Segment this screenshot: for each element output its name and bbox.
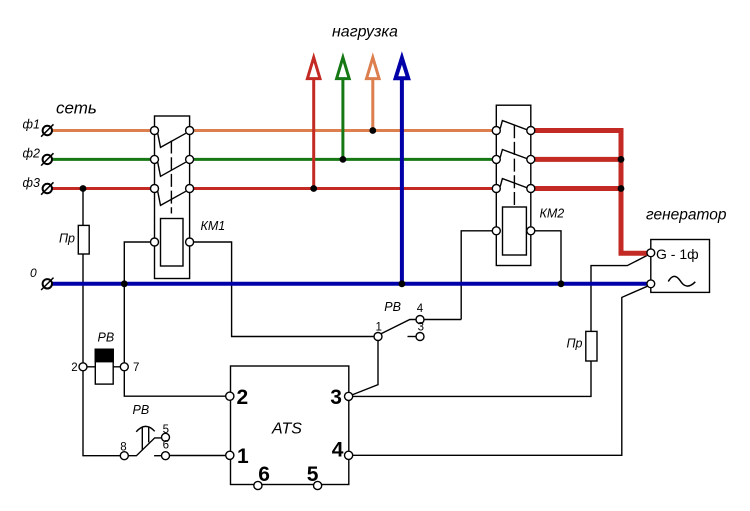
svg-text:ф2: ф2 (23, 147, 40, 161)
pin 8 switch (120, 452, 128, 460)
wire KM1 coil right to РВ(mid) pin1 (194, 242, 374, 337)
wire KM2 coil right to neutral junction (535, 231, 561, 284)
junction dot generator bus row3 (618, 185, 625, 192)
svg-text:4: 4 (417, 303, 424, 315)
ATS box (231, 366, 349, 485)
svg-text:ф1: ф1 (23, 118, 40, 132)
wire: phase ф2 (green) network segment (52, 158, 493, 161)
pin 5 switch (162, 433, 170, 441)
pin 6 ATS (254, 481, 262, 489)
wire KM1 coil left to neutral and РВ pin7 (124, 242, 150, 363)
svg-text:0: 0 (30, 266, 37, 280)
contactor KM1 blade pole1 (158, 133, 186, 147)
svg-text:4: 4 (332, 439, 344, 462)
svg-text:3: 3 (330, 386, 342, 409)
wire ф1 KM1 to KM2 (194, 129, 493, 132)
relay РВ coil (left) (87, 349, 121, 384)
contactor KM2 blade pole2 (500, 150, 528, 160)
wire switch pin6 to ATS pin1 (170, 455, 226, 457)
svg-text:генератор: генератор (646, 207, 727, 224)
junction dot blue arrow on neutral (399, 280, 406, 287)
time switch dashpot arc (136, 426, 155, 431)
contact circles KM1 (151, 127, 194, 247)
pin 3 РВ middle (416, 333, 424, 341)
svg-text:3: 3 (418, 321, 424, 333)
contactor KM2 body (496, 105, 531, 265)
contactor KM2 blade pole3 (500, 179, 528, 189)
generator terminal top (647, 249, 655, 257)
fuse Пр right (586, 331, 597, 361)
svg-text:6: 6 (163, 440, 169, 452)
load arrow blue (neutral tap) (396, 58, 409, 284)
wire ATS pin4 to generator bottom terminal (353, 286, 648, 455)
contactor KM1 blade pole3 (158, 191, 186, 205)
time switch dashpot line2 (148, 427, 150, 442)
pin 6 switch (162, 452, 170, 460)
pin 4 РВ middle (416, 316, 424, 324)
terminal ф2 (41, 153, 53, 165)
wire stub left of РВ pin3 (408, 336, 417, 338)
svg-text:Пр: Пр (567, 336, 583, 350)
svg-text:2: 2 (71, 362, 77, 374)
time switch РВ (lower left) lever (128, 426, 161, 455)
junction dot green arrow on ф2 (340, 156, 347, 163)
svg-text:5: 5 (163, 424, 169, 436)
terminal ф1 (41, 124, 53, 136)
generator sine symbol (668, 276, 695, 286)
contactor KM2 coil (503, 207, 527, 255)
pin 2 ATS (226, 392, 234, 400)
svg-text:Пр: Пр (59, 232, 75, 246)
wire РВ pin7 down to ATS pin2 (124, 371, 225, 396)
wire: generator feed (thick red) from KM2 to generator (535, 131, 647, 254)
generator box (651, 240, 710, 293)
contact circles KM1 coil pins (151, 238, 159, 246)
wire fuse Пр left to РВ pin2 (82, 254, 84, 363)
load arrow green (phase ф2 tap) (337, 58, 350, 160)
contactor KM1 body (155, 116, 190, 279)
pin 1 ATS (226, 451, 234, 459)
svg-text:РВ: РВ (98, 331, 115, 345)
contactor KM1 blade pole2 (158, 162, 186, 176)
svg-text:7: 7 (133, 362, 139, 374)
generator terminal bottom (647, 280, 655, 288)
junction dot KM1 coil on neutral (121, 280, 128, 287)
contactor KM1 coil (161, 219, 184, 267)
contactor KM2 dashed link (513, 125, 515, 205)
relay contact РВ (middle) lever 1-4 (381, 320, 416, 337)
junction dot ф3/fuse (80, 185, 87, 192)
wire РВ pin2 down to switch pin8 (83, 371, 120, 456)
pin 2 РВ left (79, 363, 87, 371)
wire РВ(mid) pin4 to KM2 coil left (424, 319, 461, 321)
wire KM2 row2 to generator bus (535, 157, 624, 162)
wire РВ coil stubs (87, 366, 121, 368)
svg-text:КМ2: КМ2 (540, 207, 565, 221)
wire ATS pin3 to fuse Пр right (353, 361, 591, 396)
wire KM2 coil left down to РВ(mid) pin4 row (461, 231, 492, 320)
wire РВ(mid) pin1 down to ATS pin3 (352, 341, 378, 396)
junction dot orange arrow on ф1 (369, 127, 376, 134)
pin 1 РВ middle (374, 333, 382, 341)
svg-text:РВ: РВ (384, 300, 401, 314)
svg-text:8: 8 (120, 442, 126, 454)
svg-text:2: 2 (237, 386, 249, 409)
svg-text:1: 1 (376, 321, 382, 333)
svg-text:КМ1: КМ1 (201, 219, 226, 233)
svg-text:ф3: ф3 (23, 176, 40, 190)
wire KM2 row3 to generator bus (535, 186, 624, 191)
junction dot red arrow on ф3 (310, 185, 317, 192)
pin 4 ATS (345, 451, 353, 459)
wire: phase ф1 (orange) network segment (52, 129, 493, 132)
wire stub left of pin6 (154, 455, 161, 457)
terminal ф3 (41, 182, 53, 194)
svg-text:6: 6 (258, 463, 270, 486)
svg-text:G - 1ф: G - 1ф (656, 246, 699, 262)
svg-text:1: 1 (237, 445, 249, 468)
load arrow orange (phase ф1 tap) (367, 58, 380, 131)
wire: neutral 0 line (blue) (52, 282, 647, 286)
wire fuse Пр right to generator top terminal (591, 255, 647, 331)
svg-text:ATS: ATS (271, 421, 302, 438)
fuse Пр left (78, 225, 89, 254)
junction dot generator bus row2 (618, 156, 625, 163)
svg-text:сеть: сеть (56, 99, 97, 118)
wire: phase ф3 (red) network segment (52, 187, 493, 190)
wire ф3 to fuse Пр left (82, 189, 84, 226)
contact circles KM2 coil pins (492, 227, 500, 235)
pin 3 ATS (345, 392, 353, 400)
wire ф2 KM1 to KM2 (194, 158, 493, 161)
svg-text:5: 5 (307, 463, 319, 486)
pin 5 ATS (314, 481, 322, 489)
wire: thin black verticals/horizontals (control circuit) (83, 189, 647, 456)
load arrow red (phase ф3 tap) (307, 58, 320, 189)
wire ф3 KM1 to KM2 (194, 187, 493, 190)
terminal 0 (41, 278, 53, 290)
contact circles KM2 (492, 127, 535, 235)
contactor KM2 blade pole1 (500, 121, 528, 131)
time switch dashpot line1 (141, 427, 143, 450)
junction dot KM2 coil on neutral (558, 280, 565, 287)
contactor KM1 dashed link (170, 141, 172, 214)
pin 7 РВ left (120, 363, 128, 371)
svg-text:РВ: РВ (133, 403, 150, 417)
svg-text:нагрузка: нагрузка (332, 24, 398, 41)
